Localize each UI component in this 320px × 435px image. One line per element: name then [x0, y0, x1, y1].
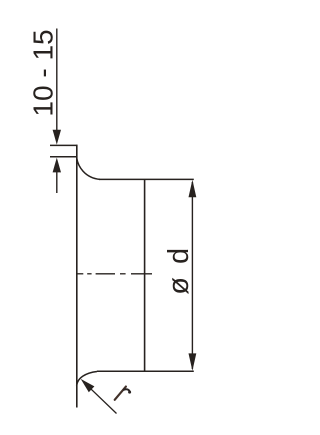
label r (italic radius symbol, drawn): [115, 387, 131, 400]
part left edge (end face vertical line): [76, 145, 78, 408]
dimension od line: [191, 182, 193, 369]
dimension od bottom arrowhead (points down): [189, 353, 197, 371]
extension line lower (flange lip bottom): [50, 156, 78, 158]
flange face line (top surface + extension to dimension): [99, 178, 194, 180]
bottom surface line (+ extension to dimension): [97, 370, 194, 372]
dimension 10-15 upper arrowhead (points down): [53, 130, 61, 145]
centerline (dash-dot axis): [77, 273, 152, 275]
svg-text:ø d: ø d: [163, 245, 195, 294]
flare curve top (lip to flange face): [77, 159, 100, 180]
svg-text:10 - 15: 10 - 15: [28, 29, 59, 116]
leader line for r: [84, 382, 117, 413]
part right edge: [144, 179, 146, 371]
dimension 10-15 upper dimension line: [56, 29, 58, 132]
dimension 10-15 lower dimension line tail: [56, 171, 58, 193]
extension line upper (flange lip top): [50, 144, 78, 146]
dimension 10-15 lower arrowhead (points up): [53, 158, 61, 173]
dimension od top arrowhead (points up): [189, 180, 197, 198]
corner radius curve bottom: [77, 372, 97, 386]
leader arrowhead for r (points up-left at the radius): [81, 379, 95, 392]
